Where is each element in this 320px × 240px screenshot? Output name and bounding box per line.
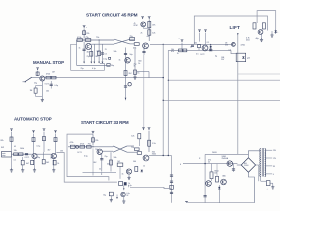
svg-text:470k: 470k xyxy=(80,143,84,145)
svg-text:22k: 22k xyxy=(95,140,98,142)
wire Q3 links xyxy=(143,27,149,29)
svg-text:25: 25 xyxy=(105,49,107,51)
capacitor C7 xyxy=(50,81,52,89)
svg-text:OC72: OC72 xyxy=(50,158,55,160)
svg-text:45Ω: 45Ω xyxy=(246,40,250,42)
svg-text:47k: 47k xyxy=(152,25,155,27)
diode stack D2 xyxy=(210,44,212,50)
wire A6 drop xyxy=(33,134,35,154)
capacitor C2 xyxy=(101,53,104,54)
arrow S6 end xyxy=(125,98,127,100)
wire A7 drop xyxy=(43,132,45,152)
resistor R28 xyxy=(87,146,92,149)
ground G13 xyxy=(271,185,274,189)
resistor R2 xyxy=(77,39,82,42)
capacitor C10 xyxy=(209,50,212,51)
resistor R32 xyxy=(138,134,141,139)
wire top loop W2 xyxy=(257,11,276,29)
ground G11 xyxy=(270,34,273,38)
wire string S1 xyxy=(83,42,85,62)
ground G9 xyxy=(122,200,125,204)
svg-text:470k: 470k xyxy=(46,74,50,76)
supply arrow A12 xyxy=(181,40,184,43)
wire A5 drop xyxy=(11,132,13,151)
transistor Q3 xyxy=(141,22,146,27)
wire manual stop output xyxy=(57,77,164,79)
transistor Q7 xyxy=(51,153,56,158)
wire ground bus W13 xyxy=(187,202,255,204)
wire string S3 xyxy=(93,45,95,62)
wire manual stop row xyxy=(32,77,40,79)
wire loop 45-to-33 x=143.8 xyxy=(143,55,145,128)
transistor Q1 xyxy=(85,43,91,49)
diode D3 xyxy=(242,56,244,58)
svg-text:25µ: 25µ xyxy=(87,56,90,58)
resistor R13 xyxy=(46,76,51,79)
wire lift rail B y=50 xyxy=(168,49,231,51)
ground G6 xyxy=(52,168,55,172)
wire tail to ground xyxy=(270,183,273,186)
capacitor C6 under Q2 xyxy=(143,49,145,55)
supply arrow A9 xyxy=(92,131,95,134)
svg-text:1M: 1M xyxy=(52,72,55,74)
wire X cross coupling 33rpm xyxy=(113,146,127,152)
resistor R29 xyxy=(135,148,140,151)
svg-text:75k: 75k xyxy=(88,143,91,145)
supply arrow A6 xyxy=(32,131,35,134)
svg-text:2k: 2k xyxy=(190,47,192,49)
resistor R9 xyxy=(98,51,101,56)
wire V2 vertical bus x=169 xyxy=(167,50,169,155)
capacitor C19 xyxy=(191,45,194,46)
bottom cluster 33rpm xyxy=(119,182,123,186)
wire internal bus 45rpm xyxy=(77,64,111,66)
ground G4 xyxy=(21,168,24,172)
wire string T2 xyxy=(110,152,112,171)
transistor Q5 xyxy=(40,76,45,81)
resistor R40 chain xyxy=(170,185,174,189)
wire bridge left xyxy=(237,164,241,166)
transistor Q12 xyxy=(202,45,208,51)
resistor C12 body xyxy=(262,23,265,29)
resistor R34 xyxy=(135,167,138,172)
wire string S4 xyxy=(98,40,100,62)
wire 45 block left edge xyxy=(76,40,78,65)
arrow S2 end xyxy=(90,62,92,64)
wire A1 drop xyxy=(83,29,85,39)
resistor R4 xyxy=(130,38,135,41)
svg-text:50µ: 50µ xyxy=(37,157,40,159)
supply arrow A8 xyxy=(54,131,57,134)
wire auto out right xyxy=(56,152,57,154)
svg-text:33k: 33k xyxy=(14,150,17,152)
capacitor C4 xyxy=(124,53,127,54)
resistor R1 xyxy=(83,31,86,35)
svg-text:1k: 1k xyxy=(122,174,124,176)
svg-text:1k: 1k xyxy=(138,63,140,65)
wire stage2 rows 33 xyxy=(127,145,134,147)
svg-text:OC72: OC72 xyxy=(200,54,204,56)
svg-text:OC71: OC71 xyxy=(25,157,30,159)
wire motor rail y=80 xyxy=(168,79,280,81)
wire bottom cluster drops xyxy=(123,185,125,190)
wire X cross coupling 45rpm xyxy=(114,39,130,44)
wire Q9 base row out xyxy=(149,155,172,157)
wire bridge top xyxy=(248,151,260,158)
svg-text:75k: 75k xyxy=(130,36,133,38)
svg-text:12k: 12k xyxy=(214,173,217,175)
resistor R24 xyxy=(42,160,45,164)
arrow trip arrow xyxy=(116,197,118,199)
resistor R5 xyxy=(134,43,139,46)
arrow S3 end xyxy=(93,62,95,64)
diode D5 xyxy=(218,185,220,203)
svg-text:75k: 75k xyxy=(96,37,99,39)
transistor Q17 xyxy=(221,179,227,185)
wire 33rpm bottom out xyxy=(130,187,172,188)
transistor Q16 xyxy=(206,181,212,187)
arrow S4 end xyxy=(98,62,100,64)
wire string T1 under Q8 xyxy=(101,154,103,171)
resistor R3 xyxy=(85,39,90,42)
wire 33rpm loop B xyxy=(58,153,117,183)
svg-text:22k: 22k xyxy=(86,33,89,35)
resistor R11 xyxy=(134,70,137,74)
wire string S2 xyxy=(90,45,92,62)
svg-text:2k: 2k xyxy=(141,33,143,35)
supply arrow A5 xyxy=(10,129,13,132)
resistor R31 xyxy=(148,140,151,146)
transistor Q8 xyxy=(97,149,102,154)
capacitor C5 xyxy=(124,86,127,87)
transistor Q2 xyxy=(143,43,149,49)
ground G1 xyxy=(133,76,136,80)
svg-text:2k2: 2k2 xyxy=(129,73,132,75)
svg-text:82k: 82k xyxy=(1,140,4,142)
transistor Q11 xyxy=(121,192,125,196)
svg-text:25µ: 25µ xyxy=(34,83,37,85)
transistor Q14 xyxy=(258,30,263,35)
wire faint rail y=74 xyxy=(238,73,280,75)
wire Q1 emitter row xyxy=(92,43,115,45)
svg-text:100k: 100k xyxy=(20,148,24,150)
capacitor C18 xyxy=(170,192,173,193)
svg-text:LIFT: LIFT xyxy=(230,25,241,31)
wire Q6 string down xyxy=(34,159,36,169)
svg-text:0.1: 0.1 xyxy=(14,160,17,162)
capacitor C16 xyxy=(170,175,173,176)
wire A9 drop xyxy=(92,134,94,145)
svg-text:47k: 47k xyxy=(171,51,174,53)
svg-text:300k: 300k xyxy=(152,154,156,156)
transistor Q9 xyxy=(143,155,149,161)
capacitor C17 xyxy=(170,181,173,182)
wire W12 left tick xyxy=(183,163,185,165)
svg-text:2k: 2k xyxy=(208,162,210,164)
svg-text:OA5: OA5 xyxy=(222,175,226,178)
wire Q2 collector stub xyxy=(137,71,149,73)
supply arrow A4 xyxy=(36,68,39,71)
svg-text:50µ: 50µ xyxy=(111,65,114,67)
svg-text:0.5: 0.5 xyxy=(196,54,199,56)
ground G5 xyxy=(33,168,36,172)
supply arrow A7 xyxy=(43,129,46,132)
capacitor C9 xyxy=(100,159,103,160)
svg-text:+: + xyxy=(267,189,268,191)
wire Q7 string down xyxy=(53,159,55,170)
svg-text:12k: 12k xyxy=(131,136,134,138)
transformer TR1 core xyxy=(261,148,263,177)
wire A3 drop xyxy=(148,20,150,42)
resistor R20 xyxy=(14,153,18,156)
transistor Q6 xyxy=(32,153,37,158)
resistor R35 xyxy=(179,49,183,52)
diode D4 xyxy=(275,29,277,34)
svg-text:OC71: OC71 xyxy=(77,152,82,154)
wire V3 vertical x=205 xyxy=(204,154,206,202)
wire Q5 lower string xyxy=(41,81,43,99)
bridge rectifier BR1 xyxy=(241,158,255,172)
transformer taps xyxy=(265,149,272,151)
wire bridge right branch xyxy=(256,165,259,181)
svg-text:470k: 470k xyxy=(77,37,81,39)
resistor R21 xyxy=(19,153,23,156)
resistor R12 xyxy=(36,72,39,75)
ground G2 xyxy=(41,98,44,102)
wire common rail y=100 xyxy=(163,99,280,101)
svg-text:10k: 10k xyxy=(46,91,49,93)
wire stage2 rows xyxy=(130,38,134,40)
svg-text:OC71: OC71 xyxy=(45,84,50,86)
diode D2 xyxy=(210,46,212,48)
resistor R39 xyxy=(216,176,219,182)
svg-text:10k: 10k xyxy=(114,51,117,53)
svg-text:1k: 1k xyxy=(137,73,139,75)
transistor Q10 xyxy=(126,169,131,174)
svg-text:2k2: 2k2 xyxy=(117,161,120,163)
supply arrow A10 xyxy=(142,128,145,131)
wire lift vertical W3 xyxy=(237,35,239,154)
svg-text:50k: 50k xyxy=(97,51,100,53)
svg-text:1k: 1k xyxy=(177,53,179,55)
resistor R8 xyxy=(90,52,93,57)
wire string S7 xyxy=(134,48,136,77)
svg-text:10k: 10k xyxy=(114,157,117,159)
svg-text:10k: 10k xyxy=(194,43,197,45)
transformer TR1 secondary winding xyxy=(265,149,266,177)
svg-text:75k: 75k xyxy=(95,149,98,151)
resistor R30 xyxy=(137,152,141,155)
lift solenoid coil L1 xyxy=(236,53,246,62)
wire 33 internal bus xyxy=(83,172,117,174)
arrow S5 end xyxy=(102,62,104,64)
diode D4 xyxy=(275,30,277,32)
ground G7 xyxy=(127,176,130,180)
svg-text:8k2: 8k2 xyxy=(46,162,49,164)
wire A14 drop xyxy=(205,33,207,45)
resistor R7 xyxy=(148,30,151,35)
capacitor C14 xyxy=(204,196,207,197)
svg-text:+: + xyxy=(179,38,180,40)
capacitor C13 xyxy=(233,164,235,172)
trigger cluster 33rpm xyxy=(117,163,123,166)
switch box SW2 pickup contact xyxy=(2,152,12,158)
transistor Q4 xyxy=(125,58,131,64)
supply arrow A3 xyxy=(148,17,151,20)
wire bridge bottom to bus xyxy=(248,172,254,203)
capacitor C20 electrolytic xyxy=(266,181,270,186)
wire 33rpm base row xyxy=(68,146,113,148)
svg-text:MANUAL STOP: MANUAL STOP xyxy=(33,60,64,65)
capacitor C6 xyxy=(142,51,145,52)
transistor Q13 xyxy=(232,43,236,47)
resistor R36 xyxy=(183,49,187,52)
transistor Q15 xyxy=(227,161,233,167)
ground tick left of bus xyxy=(186,201,188,203)
transformer TR1 primary winding xyxy=(260,149,261,177)
svg-text:75k: 75k xyxy=(85,37,88,39)
wire A4 drop xyxy=(37,71,39,76)
svg-text:4k7: 4k7 xyxy=(107,164,110,166)
capacitor C12 xyxy=(267,24,269,31)
svg-text:50µ: 50µ xyxy=(103,194,106,196)
supply arrow A14 xyxy=(204,30,207,33)
wire transformer tail xyxy=(261,176,267,181)
resistor R19 xyxy=(54,138,57,142)
svg-text:2k: 2k xyxy=(99,169,101,171)
wire relay rail W12 xyxy=(185,163,238,165)
svg-text:RPM: RPM xyxy=(134,25,138,27)
arrow S1 end xyxy=(83,62,85,64)
svg-text:1M: 1M xyxy=(60,151,63,153)
diode D5 xyxy=(218,187,220,189)
capacitor C7 xyxy=(50,84,53,85)
arrow lift in xyxy=(237,33,239,35)
resistor R16 xyxy=(10,137,13,141)
ground G10 xyxy=(260,38,263,42)
svg-text:456: 456 xyxy=(225,45,228,47)
svg-text:47k: 47k xyxy=(133,48,136,50)
wire auto stop row xyxy=(12,153,32,155)
svg-text:8k2: 8k2 xyxy=(94,162,97,164)
svg-text:50µ: 50µ xyxy=(130,54,133,56)
diode D1 xyxy=(141,170,143,172)
svg-text:25µ: 25µ xyxy=(105,156,108,158)
lower parts 33rpm xyxy=(109,192,113,196)
capacitor C8 xyxy=(25,154,28,155)
wire A8 drop xyxy=(55,134,57,154)
svg-text:45: 45 xyxy=(14,146,16,148)
svg-text:2k: 2k xyxy=(126,195,128,197)
wire Q8 emitter row xyxy=(102,150,113,152)
wire 33rpm loop A xyxy=(67,134,109,180)
wire trigger chain x=171.5 xyxy=(171,156,173,203)
resistor R18 xyxy=(43,137,46,141)
resistor R37 xyxy=(198,45,201,48)
svg-text:8k2: 8k2 xyxy=(96,56,99,58)
resistor R38 xyxy=(210,172,213,179)
svg-text:4k7: 4k7 xyxy=(26,163,29,165)
svg-text:C3200: C3200 xyxy=(244,165,249,167)
resistor R22 xyxy=(21,160,24,165)
supply arrow A13 xyxy=(198,30,201,33)
svg-text:240Ω: 240Ω xyxy=(212,152,217,154)
capacitor C13 xyxy=(232,169,235,170)
switch SW1 manual stop lever xyxy=(25,77,32,81)
supply arrow A1 xyxy=(83,26,86,29)
resistor R17 xyxy=(32,138,35,142)
svg-text:470Ω: 470Ω xyxy=(241,44,246,46)
supply arrow A11 xyxy=(148,128,151,131)
resistor R6 xyxy=(148,21,151,27)
svg-text:12k: 12k xyxy=(152,33,155,35)
resistor R26 xyxy=(92,138,95,142)
supply arrow A2 xyxy=(141,17,144,20)
wire A13 drop xyxy=(199,33,201,42)
svg-text:START CIRCUIT 33 RPM: START CIRCUIT 33 RPM xyxy=(81,120,129,125)
svg-text:4k7: 4k7 xyxy=(48,150,51,152)
resistor R27 xyxy=(80,146,85,149)
ground G8 xyxy=(110,198,113,202)
svg-text:AUTOMATIC STOP: AUTOMATIC STOP xyxy=(14,116,52,121)
svg-text:1.5k: 1.5k xyxy=(152,143,156,145)
svg-text:2N456A: 2N456A xyxy=(222,157,229,160)
svg-text:4k7: 4k7 xyxy=(87,52,90,54)
resistor R25 xyxy=(53,160,56,165)
svg-text:1k: 1k xyxy=(79,48,81,50)
svg-text:1k: 1k xyxy=(119,60,121,62)
capacitor C1 xyxy=(83,49,86,50)
resistor R10 xyxy=(124,71,127,76)
wire 45rpm base row xyxy=(77,39,115,41)
svg-text:1k: 1k xyxy=(143,166,145,168)
svg-text:0.1: 0.1 xyxy=(105,54,108,56)
svg-text:470k: 470k xyxy=(70,142,74,144)
wire A11 drop xyxy=(148,131,150,152)
wire V1 vertical bus x=163 xyxy=(162,44,164,155)
svg-text:START CIRCUIT 45 RPM: START CIRCUIT 45 RPM xyxy=(86,13,138,18)
ground G3 xyxy=(10,168,13,172)
svg-text:0: 0 xyxy=(273,174,274,176)
transistor Q4b xyxy=(128,83,131,86)
svg-text:75k: 75k xyxy=(131,147,134,149)
wire supply feed W11 xyxy=(205,153,248,155)
resistor R23 xyxy=(31,160,34,164)
svg-text:0.5: 0.5 xyxy=(229,50,232,52)
wire top loop W1 xyxy=(194,16,267,44)
capacitor C3 hang xyxy=(107,64,110,67)
svg-text:2k: 2k xyxy=(57,163,59,165)
svg-text:+: + xyxy=(86,27,87,29)
svg-text:4: 4 xyxy=(180,164,181,166)
svg-text:µ25: µ25 xyxy=(247,58,250,60)
svg-text:560: 560 xyxy=(133,161,136,163)
wire string S6 xyxy=(125,48,127,101)
resistor C11 body xyxy=(253,23,256,29)
wire A12 drop xyxy=(181,43,183,51)
svg-text:stop: stop xyxy=(2,154,5,157)
resistor R41 tiny xyxy=(109,57,111,59)
wire 45rpm left loop xyxy=(71,44,105,70)
switch box SW3 33 input xyxy=(70,145,75,148)
wire W9 lift rail A xyxy=(150,43,232,45)
svg-text:B40: B40 xyxy=(244,163,247,165)
resistor R14 xyxy=(51,76,56,79)
svg-text:1M: 1M xyxy=(30,90,33,92)
svg-text:SW: SW xyxy=(1,147,4,149)
resistor R33 xyxy=(110,160,113,165)
resistor R15 xyxy=(34,88,37,93)
